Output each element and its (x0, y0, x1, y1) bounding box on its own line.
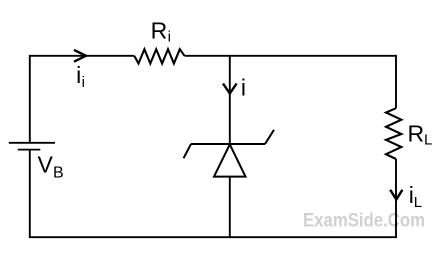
svg-text:i: i (168, 29, 171, 46)
svg-text:B: B (53, 164, 64, 181)
svg-text:R: R (408, 121, 425, 147)
zener diode D1: cathode bar (191, 143, 265, 145)
wire: top-left corner from R_i left lead to battery positive plate (30, 56, 134, 142)
battery V_B: long positive plate (9, 142, 55, 144)
svg-text:i: i (76, 62, 81, 88)
resistor R1 (R_i) zigzag (134, 49, 184, 63)
wire: node A to top-right corner down to R_L top lead (230, 56, 396, 108)
wire: battery negative plate down to bottom rail (29, 150, 31, 238)
battery V_B: short negative plate (18, 149, 41, 151)
zener diode D1: right bent tick (265, 130, 274, 144)
svg-text:L: L (424, 132, 432, 149)
zener diode D1: triangle (anode, pointing up) (214, 144, 246, 176)
svg-text:L: L (414, 194, 422, 211)
svg-text:i: i (82, 74, 85, 91)
current arrow i (chevron, pointing down) (223, 84, 237, 94)
svg-text:i: i (241, 75, 246, 101)
svg-text:R: R (151, 18, 168, 44)
zener diode D1: left bent tick (184, 144, 192, 158)
wire: middle branch from node A down to zener cathode (229, 56, 231, 144)
resistor R2 (R_L) vertical zigzag (386, 108, 401, 159)
wire: top wire from R_i right lead to node A (zener tap) (185, 55, 230, 57)
wire: zener anode down to bottom rail (229, 177, 231, 238)
current arrow i_L (chevron, pointing down) (390, 190, 402, 200)
wire: bottom rail (29, 236, 397, 238)
wire: R_L bottom lead down to bottom-right corner (395, 159, 397, 237)
svg-text:ExamSide.Com: ExamSide.Com (303, 210, 425, 232)
current arrow i_i (chevron, pointing right) (74, 50, 86, 62)
svg-text:V: V (38, 152, 54, 178)
